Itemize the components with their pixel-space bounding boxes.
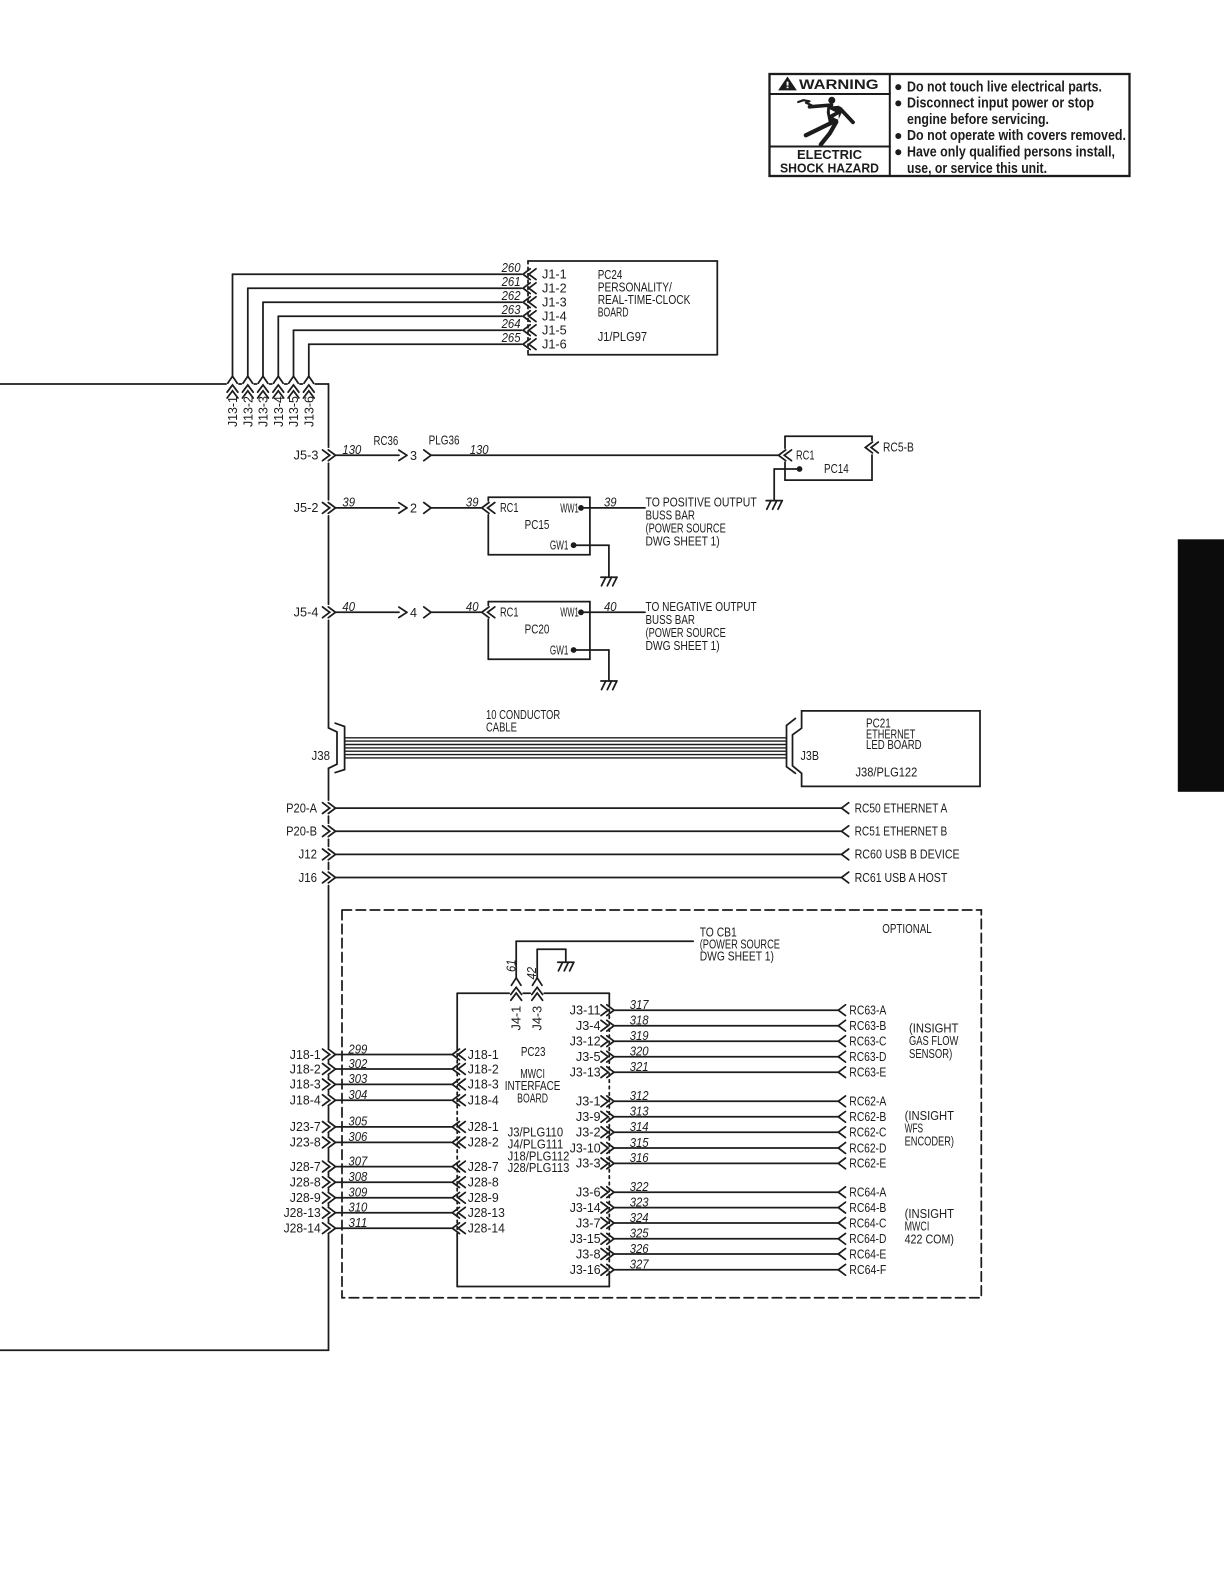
svg-text:J38: J38	[312, 749, 331, 763]
svg-text:321: 321	[630, 1060, 649, 1074]
svg-text:306: 306	[348, 1130, 367, 1144]
svg-text:(POWER SOURCE: (POWER SOURCE	[646, 626, 726, 640]
svg-text:260: 260	[501, 261, 521, 275]
svg-text:262: 262	[501, 289, 521, 303]
svg-text:39: 39	[604, 496, 617, 510]
svg-text:J13-5: J13-5	[287, 396, 301, 427]
svg-text:WARNING: WARNING	[799, 77, 879, 93]
svg-text:302: 302	[348, 1057, 367, 1071]
svg-text:315: 315	[630, 1136, 650, 1150]
svg-text:J3-4: J3-4	[576, 1019, 601, 1033]
svg-text:265: 265	[501, 331, 522, 345]
svg-text:303: 303	[348, 1072, 367, 1086]
svg-text:40: 40	[342, 600, 355, 614]
svg-text:use, or service this unit.: use, or service this unit.	[907, 160, 1047, 177]
svg-text:327: 327	[630, 1258, 650, 1272]
svg-text:422 COM): 422 COM)	[905, 1232, 954, 1246]
svg-text:J1-3: J1-3	[542, 296, 567, 310]
svg-text:GW1: GW1	[550, 643, 569, 657]
svg-text:314: 314	[630, 1120, 649, 1134]
svg-text:299: 299	[348, 1042, 368, 1056]
svg-text:J13-3: J13-3	[257, 396, 271, 427]
svg-text:J3-6: J3-6	[576, 1186, 601, 1200]
svg-text:RC62-A: RC62-A	[849, 1095, 887, 1109]
svg-text:J3-3: J3-3	[576, 1157, 601, 1171]
svg-text:130: 130	[342, 443, 361, 457]
svg-text:307: 307	[348, 1154, 368, 1168]
svg-text:BOARD: BOARD	[517, 1091, 548, 1105]
svg-text:Do not touch live electrical p: Do not touch live electrical parts.	[907, 78, 1102, 95]
svg-text:WW1: WW1	[560, 501, 579, 515]
svg-text:J3-12: J3-12	[570, 1035, 601, 1049]
svg-text:304: 304	[348, 1088, 367, 1102]
svg-text:J3-9: J3-9	[576, 1110, 601, 1124]
svg-text:J13-2: J13-2	[241, 396, 255, 427]
svg-text:J28-8: J28-8	[290, 1176, 321, 1190]
svg-text:J3-13: J3-13	[570, 1066, 601, 1080]
svg-text:61: 61	[504, 959, 518, 972]
svg-text:J18-3: J18-3	[290, 1078, 321, 1092]
svg-text:4: 4	[410, 606, 417, 620]
svg-text:RC62-C: RC62-C	[849, 1126, 886, 1140]
svg-text:J1-2: J1-2	[542, 282, 567, 296]
svg-text:J3-15: J3-15	[570, 1232, 601, 1246]
svg-text:316: 316	[630, 1151, 649, 1165]
svg-text:308: 308	[348, 1170, 367, 1184]
svg-text:P20-A: P20-A	[286, 801, 317, 815]
svg-text:J28-2: J28-2	[468, 1136, 499, 1150]
svg-text:RC51 ETHERNET B: RC51 ETHERNET B	[855, 825, 948, 839]
svg-text:309: 309	[348, 1186, 367, 1200]
svg-text:RC64-D: RC64-D	[849, 1232, 886, 1246]
svg-text:318: 318	[630, 1014, 649, 1028]
svg-text:RC64-A: RC64-A	[849, 1186, 887, 1200]
svg-text:319: 319	[630, 1029, 649, 1043]
svg-text:J3-14: J3-14	[570, 1201, 601, 1215]
svg-text:310: 310	[348, 1201, 367, 1215]
svg-text:J28-7: J28-7	[468, 1160, 499, 1174]
svg-text:RC63-B: RC63-B	[849, 1019, 886, 1033]
svg-text:J5-4: J5-4	[294, 606, 319, 620]
svg-text:J3B: J3B	[801, 749, 820, 763]
svg-text:J13-1: J13-1	[226, 396, 240, 427]
svg-text:J1-1: J1-1	[542, 268, 567, 282]
svg-text:263: 263	[501, 303, 521, 317]
svg-text:TO POSITIVE OUTPUT: TO POSITIVE OUTPUT	[646, 496, 757, 510]
svg-text:LED BOARD: LED BOARD	[866, 738, 922, 752]
svg-text:J3-5: J3-5	[576, 1050, 601, 1064]
svg-text:PC20: PC20	[525, 623, 550, 637]
svg-text:322: 322	[630, 1180, 649, 1194]
svg-text:325: 325	[630, 1227, 650, 1241]
svg-text:J3-2: J3-2	[576, 1126, 601, 1140]
svg-text:J1-6: J1-6	[542, 338, 567, 352]
svg-text:J4-1: J4-1	[510, 1006, 524, 1031]
svg-text:J18-1: J18-1	[468, 1048, 499, 1062]
svg-text:RC50 ETHERNET A: RC50 ETHERNET A	[855, 801, 948, 815]
svg-text:40: 40	[466, 600, 479, 614]
svg-text:RC64-F: RC64-F	[849, 1263, 886, 1277]
svg-text:42: 42	[525, 967, 539, 980]
svg-text:305: 305	[348, 1115, 368, 1129]
svg-text:J1-5: J1-5	[542, 324, 567, 338]
svg-text:130: 130	[470, 443, 489, 457]
svg-text:BOARD: BOARD	[598, 305, 629, 319]
svg-text:J3-11: J3-11	[570, 1004, 601, 1018]
svg-text:2: 2	[410, 501, 417, 515]
svg-text:RC62-E: RC62-E	[849, 1157, 886, 1171]
svg-text:PC23: PC23	[521, 1045, 546, 1059]
svg-text:DWG SHEET 1): DWG SHEET 1)	[646, 535, 720, 549]
svg-text:RC5-B: RC5-B	[883, 441, 914, 455]
svg-text:J18-4: J18-4	[290, 1094, 321, 1108]
svg-text:J4-3: J4-3	[531, 1006, 545, 1031]
svg-text:DWG SHEET 1): DWG SHEET 1)	[700, 950, 774, 964]
svg-text:J16: J16	[299, 871, 318, 885]
svg-text:J28-14: J28-14	[284, 1222, 321, 1236]
svg-text:J28-8: J28-8	[468, 1176, 499, 1190]
svg-text:J13-6: J13-6	[302, 396, 316, 427]
svg-text:RC63-D: RC63-D	[849, 1050, 886, 1064]
svg-text:P20-B: P20-B	[286, 825, 317, 839]
svg-text:DWG SHEET 1): DWG SHEET 1)	[646, 639, 720, 653]
svg-text:RC64-B: RC64-B	[849, 1201, 886, 1215]
svg-text:Disconnect input power or stop: Disconnect input power or stop	[907, 95, 1094, 112]
svg-text:RC1: RC1	[500, 501, 519, 515]
svg-text:RC1: RC1	[500, 606, 519, 620]
svg-text:TO NEGATIVE OUTPUT: TO NEGATIVE OUTPUT	[646, 600, 757, 614]
svg-text:RC63-C: RC63-C	[849, 1035, 886, 1049]
svg-text:J28-1: J28-1	[468, 1120, 499, 1134]
svg-text:312: 312	[630, 1089, 649, 1103]
svg-text:RC60 USB B DEVICE: RC60 USB B DEVICE	[855, 848, 960, 862]
svg-text:Do not operate with covers rem: Do not operate with covers removed.	[907, 127, 1126, 144]
svg-text:RC64-E: RC64-E	[849, 1247, 886, 1261]
svg-text:Have only qualified persons in: Have only qualified persons install,	[907, 144, 1115, 161]
svg-text:264: 264	[501, 317, 521, 331]
svg-text:RC63-A: RC63-A	[849, 1004, 887, 1018]
svg-text:PLG36: PLG36	[429, 433, 460, 447]
svg-text:SHOCK HAZARD: SHOCK HAZARD	[780, 162, 879, 176]
svg-text:J18-1: J18-1	[290, 1048, 321, 1062]
svg-text:313: 313	[630, 1105, 649, 1119]
svg-text:J18-2: J18-2	[290, 1062, 321, 1076]
svg-text:39: 39	[342, 496, 355, 510]
svg-text:engine before servicing.: engine before servicing.	[907, 111, 1049, 128]
svg-text:J5-3: J5-3	[294, 449, 319, 463]
svg-text:J3-1: J3-1	[576, 1095, 601, 1109]
svg-text:J18-3: J18-3	[468, 1078, 499, 1092]
svg-text:J23-8: J23-8	[290, 1136, 321, 1150]
svg-text:J28-13: J28-13	[468, 1206, 505, 1220]
svg-text:261: 261	[501, 275, 521, 289]
svg-text:J18-2: J18-2	[468, 1062, 499, 1076]
svg-text:J1-4: J1-4	[542, 310, 567, 324]
svg-text:RC1: RC1	[796, 449, 815, 463]
svg-text:317: 317	[630, 998, 650, 1012]
svg-text:GW1: GW1	[550, 539, 569, 553]
svg-text:RC36: RC36	[374, 434, 399, 448]
svg-text:J28-7: J28-7	[290, 1160, 321, 1174]
svg-text:311: 311	[348, 1216, 367, 1230]
svg-text:J1/PLG97: J1/PLG97	[598, 330, 647, 344]
svg-text:RC64-C: RC64-C	[849, 1216, 886, 1230]
svg-text:RC62-D: RC62-D	[849, 1141, 886, 1155]
svg-text:ELECTRIC: ELECTRIC	[797, 148, 862, 162]
svg-text:BUSS BAR: BUSS BAR	[646, 509, 695, 523]
svg-text:PC15: PC15	[525, 518, 550, 532]
svg-text:J13-4: J13-4	[272, 396, 286, 427]
svg-text:323: 323	[630, 1195, 649, 1209]
svg-text:J3-7: J3-7	[576, 1216, 601, 1230]
svg-text:320: 320	[630, 1045, 649, 1059]
svg-text:ENCODER): ENCODER)	[905, 1134, 954, 1148]
svg-text:RC61 USB A HOST: RC61 USB A HOST	[855, 871, 948, 885]
svg-text:39: 39	[466, 496, 479, 510]
svg-text:J18-4: J18-4	[468, 1094, 499, 1108]
svg-text:J28/PLG113: J28/PLG113	[508, 1161, 570, 1175]
svg-text:SENSOR): SENSOR)	[909, 1047, 952, 1061]
svg-text:J3-10: J3-10	[570, 1141, 601, 1155]
svg-text:3: 3	[410, 449, 417, 463]
svg-text:J28-14: J28-14	[468, 1222, 505, 1236]
svg-text:CABLE: CABLE	[486, 721, 517, 735]
svg-text:(POWER SOURCE: (POWER SOURCE	[646, 522, 726, 536]
svg-text:J28-9: J28-9	[468, 1191, 499, 1205]
svg-text:J5-2: J5-2	[294, 501, 319, 515]
svg-text:40: 40	[604, 600, 617, 614]
svg-text:J28-9: J28-9	[290, 1191, 321, 1205]
svg-text:OPTIONAL: OPTIONAL	[882, 922, 931, 936]
svg-text:J28-13: J28-13	[284, 1206, 321, 1220]
svg-text:J3-16: J3-16	[570, 1263, 601, 1277]
svg-text:WW1: WW1	[560, 606, 579, 620]
svg-text:BUSS BAR: BUSS BAR	[646, 613, 695, 627]
svg-text:J3-8: J3-8	[576, 1247, 601, 1261]
svg-text:324: 324	[630, 1211, 649, 1225]
svg-text:RC62-B: RC62-B	[849, 1110, 886, 1124]
svg-text:J23-7: J23-7	[290, 1120, 321, 1134]
svg-text:J12: J12	[299, 848, 318, 862]
svg-text:326: 326	[630, 1242, 649, 1256]
svg-text:RC63-E: RC63-E	[849, 1066, 886, 1080]
svg-text:J38/PLG122: J38/PLG122	[856, 765, 918, 779]
svg-text:PC14: PC14	[824, 462, 849, 476]
